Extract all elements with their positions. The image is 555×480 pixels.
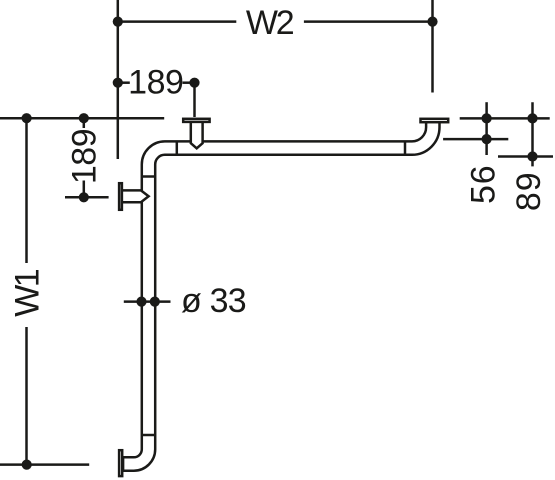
W1 bottom extension line <box>0 463 89 466</box>
189 left bottom dot <box>79 192 89 202</box>
56 dimension line vertical <box>485 102 488 155</box>
56 bottom dot <box>482 134 492 144</box>
W2 dimension line right segment <box>304 20 433 23</box>
189 top dimension line right segment <box>183 81 195 84</box>
W1 dimension line upper segment <box>25 118 28 263</box>
89 dimension line vertical <box>531 102 534 166</box>
W2 dimension line left segment <box>118 20 237 23</box>
top support arrow <box>191 122 203 149</box>
left support flange <box>119 183 122 210</box>
W1 dimension line lower segment <box>25 327 28 465</box>
right support flange <box>421 119 449 122</box>
svg-text:56: 56 <box>464 164 502 204</box>
189 top dot right <box>189 78 199 88</box>
svg-text:189: 189 <box>128 64 183 102</box>
joint line vertical tube top <box>142 175 155 178</box>
joint line vertical tube bottom <box>142 434 155 437</box>
W2 dot right <box>427 17 437 27</box>
89 bottom dot <box>527 151 537 161</box>
W2 extension line right <box>431 0 434 93</box>
56 89 top reference line A <box>460 117 550 120</box>
svg-text:189: 189 <box>66 129 104 184</box>
89 top dot <box>527 113 537 123</box>
top support flange <box>183 119 209 122</box>
left support arrow <box>121 190 149 202</box>
wall reference line top left <box>0 117 164 120</box>
W1 top dot <box>22 113 32 123</box>
189 top leader line down to flange <box>193 83 196 117</box>
W1 bottom dot <box>22 460 32 470</box>
189 left dimension line upper segment <box>83 118 86 128</box>
diameter dot left <box>136 297 146 307</box>
svg-text:W2: W2 <box>246 4 294 42</box>
189 left dimension line lower segment <box>83 181 86 198</box>
W2 extension line left <box>117 0 120 159</box>
svg-text:89: 89 <box>510 171 548 211</box>
svg-text:W1: W1 <box>8 269 46 316</box>
189 top dimension line left segment <box>118 81 130 84</box>
grab rail tube outline <box>123 122 439 471</box>
189 left extension line at support <box>65 196 109 199</box>
56 bottom reference line B <box>443 138 508 141</box>
diameter 33 leader line <box>124 300 171 303</box>
W2 dot left <box>113 17 123 27</box>
diameter dot right <box>150 297 160 307</box>
joint line horizontal tube right <box>404 141 407 154</box>
89 bottom reference line C <box>498 155 553 158</box>
joint line horizontal tube left <box>176 141 179 154</box>
189 left top dot <box>79 113 89 123</box>
bottom support flange <box>119 450 122 476</box>
189 top dot left <box>113 78 123 88</box>
svg-text:ø 33: ø 33 <box>181 282 246 320</box>
56 top dot <box>482 113 492 123</box>
